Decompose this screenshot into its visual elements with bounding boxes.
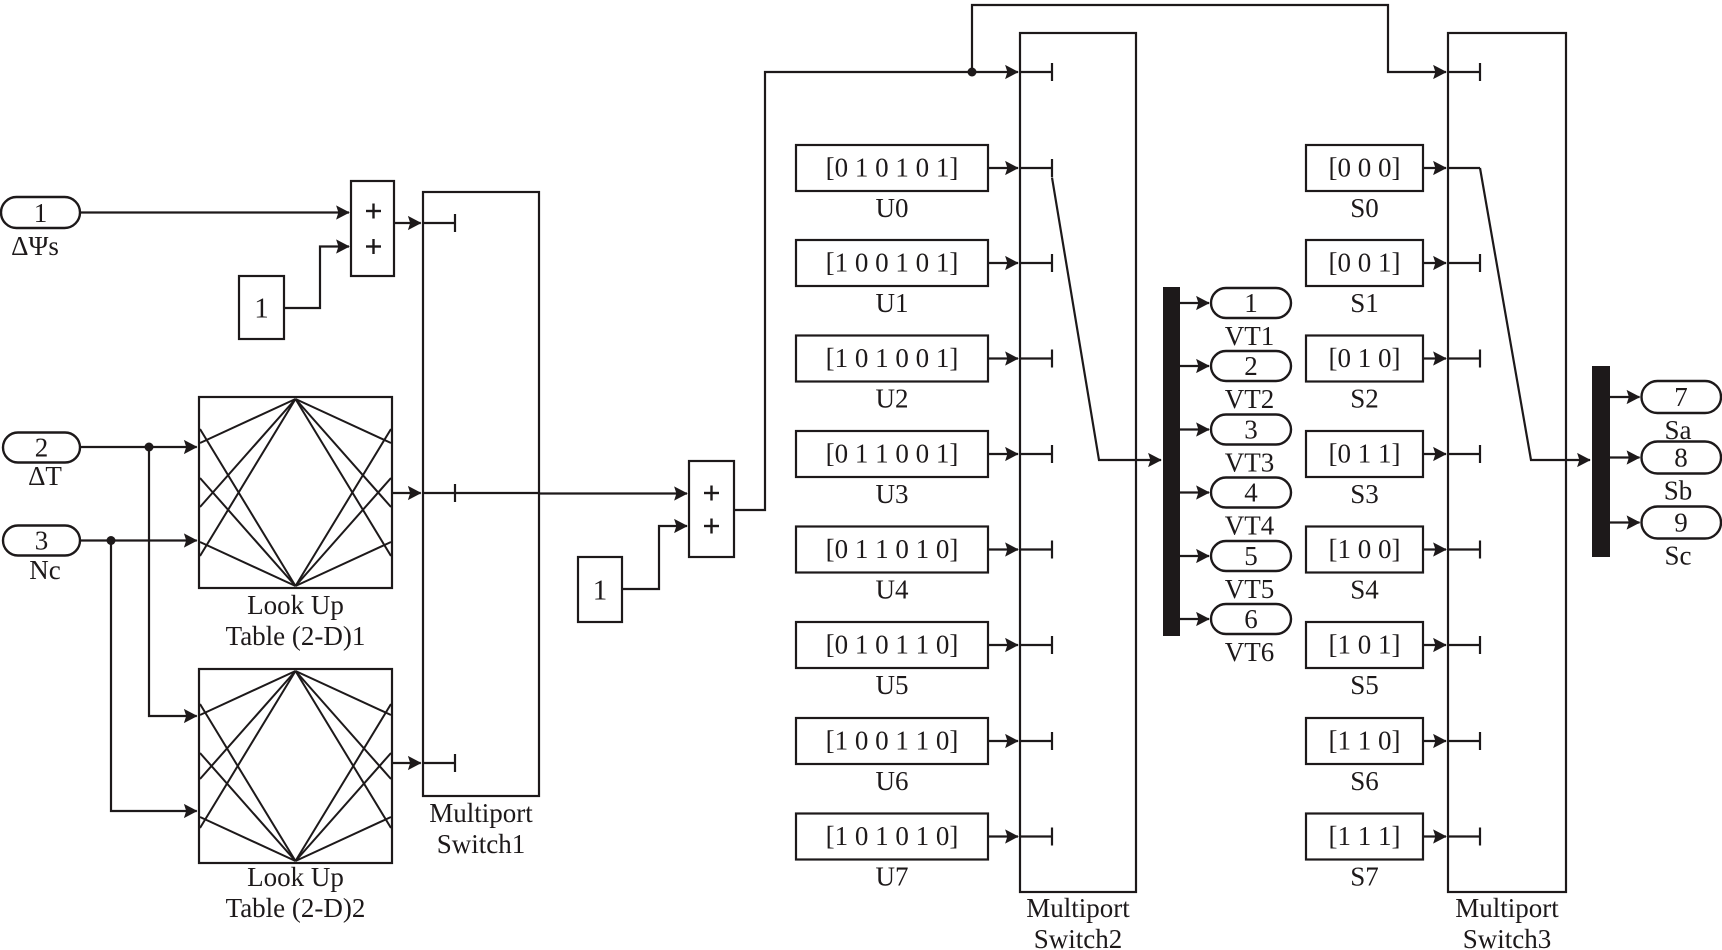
svg-text:6: 6 — [1244, 604, 1258, 634]
svg-text:Look Up: Look Up — [247, 862, 344, 892]
svg-text:Nc: Nc — [29, 555, 60, 585]
svg-text:[1 0 0 1 0 1]: [1 0 0 1 0 1] — [826, 248, 959, 278]
svg-text:2: 2 — [35, 433, 49, 463]
svg-text:[1 0 0]: [1 0 0] — [1329, 534, 1401, 564]
svg-text:Multiport: Multiport — [429, 798, 533, 828]
svg-text:U5: U5 — [876, 670, 909, 700]
svg-text:VT4: VT4 — [1225, 511, 1275, 541]
svg-text:Table (2-D)1: Table (2-D)1 — [226, 621, 366, 651]
svg-text:U4: U4 — [876, 575, 909, 605]
svg-text:S1: S1 — [1350, 288, 1379, 318]
svg-text:[0 1 0 1 0 1]: [0 1 0 1 0 1] — [826, 153, 959, 183]
svg-text:1: 1 — [34, 198, 48, 228]
svg-text:U6: U6 — [876, 766, 909, 796]
svg-text:[1 0 0 1 1 0]: [1 0 0 1 1 0] — [826, 726, 959, 756]
svg-text:VT1: VT1 — [1225, 321, 1275, 351]
svg-text:2: 2 — [1244, 351, 1258, 381]
svg-text:S4: S4 — [1350, 575, 1379, 605]
svg-text:[0 1 1 0 0 1]: [0 1 1 0 0 1] — [826, 439, 959, 469]
svg-text:Sa: Sa — [1665, 415, 1692, 445]
svg-text:[1 1 0]: [1 1 0] — [1329, 726, 1401, 756]
svg-text:Table (2-D)2: Table (2-D)2 — [226, 893, 366, 923]
svg-text:Switch2: Switch2 — [1034, 924, 1123, 950]
svg-text:[0 1 0]: [0 1 0] — [1329, 343, 1401, 373]
svg-text:Multiport: Multiport — [1455, 893, 1559, 923]
svg-text:[1 0 1 0 1 0]: [1 0 1 0 1 0] — [826, 821, 959, 851]
svg-text:U3: U3 — [876, 479, 909, 509]
svg-text:[0 0 1]: [0 0 1] — [1329, 248, 1401, 278]
svg-text:[1 0 1 0 0 1]: [1 0 1 0 0 1] — [826, 343, 959, 373]
svg-text:Multiport: Multiport — [1026, 893, 1130, 923]
svg-text:S6: S6 — [1350, 766, 1379, 796]
svg-text:1: 1 — [593, 575, 608, 607]
svg-text:9: 9 — [1674, 508, 1688, 538]
svg-text:Switch1: Switch1 — [437, 829, 526, 859]
svg-text:U7: U7 — [876, 862, 909, 892]
svg-text:7: 7 — [1674, 382, 1688, 412]
svg-text:S3: S3 — [1350, 479, 1379, 509]
svg-text:S0: S0 — [1350, 193, 1379, 223]
svg-text:4: 4 — [1244, 478, 1258, 508]
svg-text:8: 8 — [1674, 443, 1688, 473]
svg-text:5: 5 — [1244, 541, 1258, 571]
svg-text:[1 1 1]: [1 1 1] — [1329, 821, 1401, 851]
svg-text:VT3: VT3 — [1225, 448, 1275, 478]
svg-text:Sb: Sb — [1664, 476, 1693, 506]
svg-text:1: 1 — [1244, 288, 1258, 318]
svg-text:[0 1 0 1 1 0]: [0 1 0 1 1 0] — [826, 630, 959, 660]
svg-text:[1 0 1]: [1 0 1] — [1329, 630, 1401, 660]
svg-text:S5: S5 — [1350, 670, 1379, 700]
svg-text:[0 0 0]: [0 0 0] — [1329, 153, 1401, 183]
svg-text:VT2: VT2 — [1225, 384, 1275, 414]
svg-text:S2: S2 — [1350, 384, 1379, 414]
svg-text:3: 3 — [1244, 415, 1258, 445]
svg-text:[0 1 1]: [0 1 1] — [1329, 439, 1401, 469]
svg-text:Sc: Sc — [1665, 541, 1692, 571]
svg-text:Switch3: Switch3 — [1463, 924, 1552, 950]
svg-text:U0: U0 — [876, 193, 909, 223]
svg-text:1: 1 — [254, 293, 269, 325]
svg-text:Look Up: Look Up — [247, 590, 344, 620]
svg-text:U2: U2 — [876, 384, 909, 414]
svg-text:[0 1 1 0 1 0]: [0 1 1 0 1 0] — [826, 534, 959, 564]
svg-text:VT6: VT6 — [1225, 637, 1275, 667]
svg-text:3: 3 — [35, 526, 49, 556]
svg-text:ΔT: ΔT — [28, 461, 62, 491]
svg-text:VT5: VT5 — [1225, 574, 1275, 604]
svg-text:S7: S7 — [1350, 862, 1379, 892]
svg-text:U1: U1 — [876, 288, 909, 318]
svg-text:ΔΨs: ΔΨs — [11, 231, 59, 261]
